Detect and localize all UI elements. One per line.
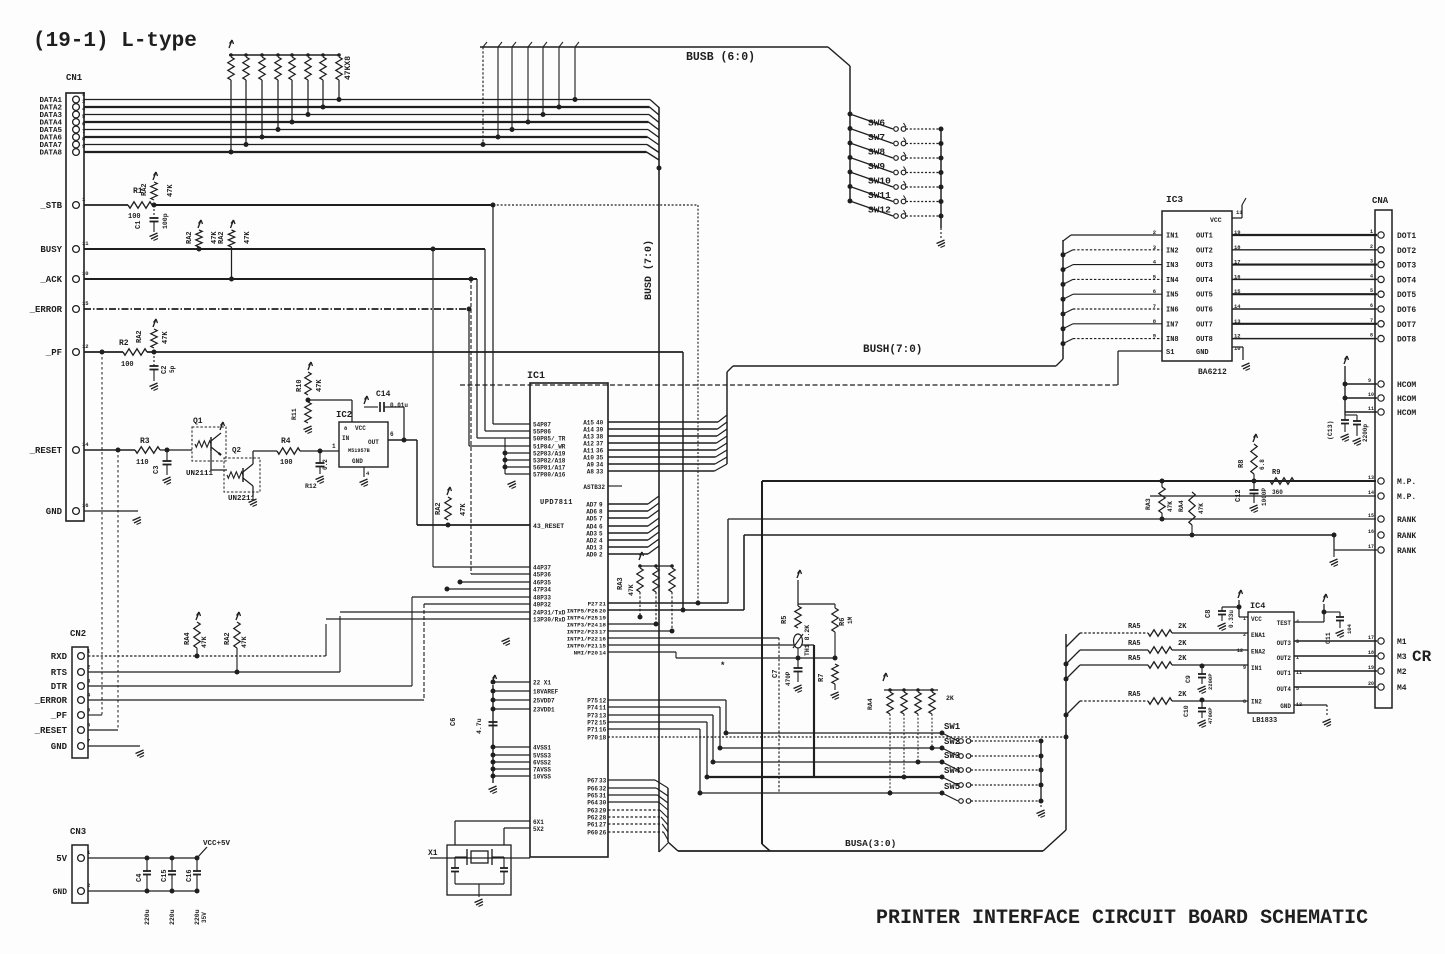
svg-text:OUT4: OUT4: [1277, 686, 1292, 693]
wire M.P. line: [761, 481, 763, 844]
resistor R11 220: [305, 402, 311, 423]
svg-text:5: 5: [599, 531, 603, 538]
ground VSS: [489, 786, 497, 790]
svg-text:360: 360: [1272, 489, 1283, 496]
svg-text:20: 20: [1368, 681, 1374, 687]
svg-text:R5: R5: [781, 616, 789, 624]
svg-text:6: 6: [1370, 303, 1373, 309]
wire Q2 collector to R4: [252, 451, 254, 464]
resistor RA2 47K pull-up on _ACK: [231, 220, 234, 228]
switch SW11: [848, 184, 853, 189]
svg-text:P63: P63: [587, 808, 598, 815]
svg-text:47K: 47K: [167, 184, 175, 197]
svg-text:47K: 47K: [628, 584, 635, 596]
svg-text:220u: 220u: [144, 909, 151, 925]
svg-text:10: 10: [1234, 345, 1241, 352]
svg-text:CR: CR: [1412, 648, 1432, 666]
svg-text:A15: A15: [583, 420, 594, 427]
svg-text:RA5: RA5: [1128, 623, 1141, 631]
wire IC3 VCC: [1232, 217, 1242, 219]
wire VSS pins tie: [493, 746, 530, 748]
svg-text:11: 11: [82, 240, 89, 247]
wire IC4 TEST + capacitor C11: [1294, 621, 1324, 623]
svg-text:4700P: 4700P: [1207, 707, 1214, 724]
svg-text:54P87: 54P87: [533, 422, 551, 429]
svg-text:1: 1: [1370, 229, 1373, 235]
svg-text:RA3: RA3: [617, 577, 625, 590]
svg-text:HCOM: HCOM: [1397, 395, 1416, 404]
svg-text:DOT8: DOT8: [1397, 336, 1416, 345]
svg-text:C2: C2: [161, 366, 169, 374]
svg-text:10: 10: [82, 270, 89, 277]
svg-text:RANK: RANK: [1397, 532, 1416, 541]
svg-text:IN5: IN5: [1166, 292, 1179, 300]
wire INTP1/P22 to SW5: [608, 637, 779, 639]
svg-text:4: 4: [1370, 273, 1373, 279]
svg-text:IC1: IC1: [527, 371, 545, 382]
svg-text:OUT7: OUT7: [1196, 321, 1213, 329]
svg-text:CNA: CNA: [1372, 196, 1389, 206]
svg-text:33: 33: [599, 778, 607, 785]
svg-text:UN2111: UN2111: [186, 470, 214, 478]
capacitor C12 1000P: [1253, 481, 1255, 490]
wire INTP3 INTP2 stubs: [608, 623, 656, 625]
svg-text:57P80/A16: 57P80/A16: [533, 472, 566, 479]
svg-text:30: 30: [599, 800, 607, 807]
svg-text:14: 14: [82, 441, 89, 448]
svg-text:25VDD7: 25VDD7: [533, 698, 555, 705]
svg-text:15: 15: [1368, 513, 1374, 519]
svg-text:TH1 8.2K: TH1 8.2K: [804, 625, 811, 656]
svg-text:47K: 47K: [244, 231, 252, 244]
svg-text:56P81/A17: 56P81/A17: [533, 465, 566, 472]
wires IC4 outputs to CNA M pins: [1294, 640, 1377, 642]
svg-text:IC3: IC3: [1166, 194, 1183, 205]
svg-text:INTP4/P25: INTP4/P25: [567, 615, 599, 622]
bus BUSA (3:0): [678, 850, 1043, 852]
svg-text:32: 32: [599, 786, 607, 793]
wire CN2 _ERROR line: [88, 699, 424, 701]
svg-text:6.8: 6.8: [1259, 459, 1266, 470]
svg-text:2K: 2K: [946, 695, 954, 702]
svg-text:2200p: 2200p: [1362, 424, 1369, 442]
svg-text:2200P: 2200P: [1207, 673, 1214, 690]
svg-text:IN3: IN3: [1166, 262, 1179, 270]
svg-text:A13: A13: [583, 434, 594, 441]
resistor network RA3 47K x3: [639, 552, 642, 560]
svg-text:P64: P64: [587, 800, 598, 807]
bus BUSB (6:0) top bus: [480, 46, 828, 48]
ground SW1-SW5: [1037, 810, 1045, 814]
svg-text:38: 38: [596, 434, 604, 441]
svg-text:22 X1: 22 X1: [533, 680, 551, 687]
wire P75-P70 port lines: [608, 699, 726, 701]
svg-text:100: 100: [121, 361, 134, 369]
svg-text:9: 9: [599, 502, 603, 509]
svg-text:LB1833: LB1833: [1252, 717, 1277, 725]
svg-text:15: 15: [599, 720, 607, 727]
svg-text:RA2: RA2: [136, 330, 144, 343]
svg-text:26: 26: [599, 830, 607, 837]
wire IC4 VCC + capacitor C8: [1238, 590, 1241, 598]
resistor R7 2M: [832, 664, 838, 684]
svg-text:8: 8: [599, 509, 603, 516]
svg-text:18: 18: [599, 735, 607, 742]
svg-text:5X2: 5X2: [533, 826, 544, 833]
svg-text:P73: P73: [587, 713, 598, 720]
svg-text:12: 12: [1237, 648, 1243, 654]
wires OUT1-OUT8 to DOT1-DOT8: [1232, 234, 1377, 236]
svg-text:SW5: SW5: [944, 782, 960, 792]
svg-text:1M: 1M: [847, 616, 854, 624]
svg-text:P72: P72: [587, 720, 598, 727]
svg-text:_PF: _PF: [50, 711, 67, 721]
wire TxD riser: [339, 616, 341, 672]
resistor network 47Kx8 pull-ups: [229, 40, 232, 48]
resistor R3 110: [135, 447, 160, 453]
svg-text:6: 6: [87, 722, 90, 729]
svg-text:*: *: [720, 661, 725, 671]
wire CN2 _PF stub: [88, 714, 102, 716]
resistor RA2 47K pull-up on RTS: [236, 612, 239, 620]
svg-text:IN8: IN8: [1166, 336, 1179, 344]
svg-text:CN1: CN1: [66, 73, 83, 83]
svg-text:M51957B: M51957B: [348, 448, 370, 454]
svg-text:SW12: SW12: [868, 205, 891, 216]
wire IC4 GND: [1294, 704, 1327, 706]
svg-text:DOT2: DOT2: [1397, 247, 1416, 256]
svg-text:39: 39: [596, 427, 604, 434]
svg-text:VCC: VCC: [1210, 217, 1222, 224]
svg-text:1000P: 1000P: [1261, 488, 1268, 506]
svg-text:INTP0/P21: INTP0/P21: [567, 643, 599, 650]
wire DTR riser: [411, 597, 413, 686]
wire IC3 GND: [1232, 346, 1243, 348]
svg-text:C16: C16: [186, 869, 194, 882]
svg-text:M2: M2: [1397, 668, 1407, 677]
svg-text:2: 2: [87, 882, 90, 889]
resistor RA2 47K pull-up on RESET: [447, 487, 450, 495]
capacitor C1: [153, 205, 155, 218]
svg-text:35V: 35V: [201, 912, 208, 923]
ground Q2 emitter: [252, 486, 254, 497]
wire RxD riser: [325, 624, 327, 656]
wire BUSB tap 1: [574, 47, 576, 100]
ground crystal: [475, 899, 483, 903]
capacitor C6 4.7u: [489, 721, 498, 723]
wire RTS line: [88, 671, 340, 673]
svg-text:0.33u: 0.33u: [1228, 610, 1235, 628]
svg-text:17: 17: [1368, 635, 1374, 641]
svg-text:RTS: RTS: [51, 668, 68, 678]
resistor R5 8.2K: [797, 570, 800, 578]
svg-text:15: 15: [82, 300, 89, 307]
svg-text:9: 9: [1368, 378, 1371, 384]
svg-text:2: 2: [87, 664, 90, 671]
svg-text:DOT1: DOT1: [1397, 232, 1416, 241]
svg-text:470P: 470P: [785, 671, 792, 686]
wire INTP0/P21 to SW4: [608, 644, 814, 646]
svg-text:OUT2: OUT2: [1277, 655, 1292, 662]
svg-text:33: 33: [596, 469, 604, 476]
wire BUSY to IC1 P86: [484, 249, 486, 431]
svg-text:12: 12: [599, 698, 607, 705]
svg-text:AD1: AD1: [586, 545, 597, 552]
svg-text:BUSY: BUSY: [40, 245, 62, 255]
wire P67-P60 to BUSA bus: [608, 779, 655, 781]
svg-text:Q1: Q1: [193, 417, 203, 426]
svg-text:104: 104: [1346, 623, 1353, 634]
svg-text:47KX8: 47KX8: [344, 56, 353, 80]
svg-text:2: 2: [1370, 244, 1373, 250]
svg-text:AD3: AD3: [586, 531, 597, 538]
wire _STB line: [84, 204, 128, 206]
ground C1: [150, 233, 158, 237]
svg-text:_STB: _STB: [39, 201, 62, 211]
ground P8x tie: [508, 481, 516, 485]
svg-text:19: 19: [599, 615, 606, 622]
svg-text:14: 14: [599, 650, 606, 657]
svg-text:16: 16: [599, 636, 606, 643]
svg-text:2K: 2K: [1178, 623, 1187, 631]
wire S1 select line: [460, 384, 1118, 386]
svg-text:OUT5: OUT5: [1196, 292, 1213, 300]
svg-text:SW7: SW7: [868, 132, 885, 143]
svg-text:OUT: OUT: [368, 439, 379, 446]
svg-text:SW9: SW9: [868, 161, 885, 172]
wire RANK3 ground: [1334, 549, 1377, 551]
svg-text:4VSS1: 4VSS1: [533, 745, 551, 752]
svg-text:52P83/A19: 52P83/A19: [533, 451, 566, 458]
ground C2: [150, 383, 158, 387]
svg-text:8: 8: [1370, 333, 1373, 339]
resistor R4 100: [277, 448, 300, 454]
svg-text:4: 4: [599, 538, 603, 545]
svg-text:ASTB32: ASTB32: [583, 484, 605, 491]
svg-text:3: 3: [1296, 639, 1299, 645]
svg-text:RA2: RA2: [435, 502, 443, 515]
svg-text:10: 10: [1368, 392, 1374, 398]
wire _ERROR to IC1 P84: [468, 309, 470, 446]
svg-text:OUT4: OUT4: [1196, 277, 1213, 285]
wire AD7-AD0 to BUSD: [608, 503, 648, 505]
svg-text:23VDD1: 23VDD1: [533, 707, 555, 714]
svg-text:49P32: 49P32: [533, 602, 551, 609]
svg-text:CN3: CN3: [70, 827, 86, 837]
svg-text:2: 2: [599, 552, 603, 559]
svg-text:P70: P70: [587, 735, 598, 742]
svg-text:5VSS3: 5VSS3: [533, 753, 551, 760]
svg-text:BUSA(3:0): BUSA(3:0): [845, 838, 896, 849]
wire NMI/P20 to thermistor divider: [608, 651, 676, 653]
svg-text:16: 16: [599, 727, 607, 734]
svg-text:28: 28: [599, 815, 607, 822]
svg-text:8: 8: [1243, 699, 1246, 705]
svg-text:31: 31: [599, 793, 607, 800]
svg-text:C15: C15: [161, 869, 169, 882]
svg-text:11: 11: [1368, 406, 1374, 412]
svg-text:18VAREF: 18VAREF: [533, 689, 559, 696]
svg-text:45P36: 45P36: [533, 572, 551, 579]
svg-text:2: 2: [82, 91, 85, 98]
svg-text:P75: P75: [587, 698, 598, 705]
svg-text:27: 27: [599, 822, 607, 829]
wire _RESET to CN2 _RESET: [117, 450, 119, 730]
svg-text:R6: R6: [839, 618, 847, 626]
svg-text:0.01u: 0.01u: [390, 402, 408, 409]
capacitor C4: [145, 856, 150, 861]
svg-text:40: 40: [596, 420, 604, 427]
svg-text:OUT2: OUT2: [1196, 247, 1213, 255]
svg-text:R3: R3: [140, 437, 150, 446]
svg-text:S1: S1: [1166, 349, 1174, 357]
svg-text:BUSD (7:0): BUSD (7:0): [643, 240, 655, 300]
svg-text:Q2: Q2: [232, 447, 242, 455]
svg-text:100p: 100p: [162, 213, 169, 229]
wire BUSB tap 3: [542, 47, 544, 115]
wire _ACK line: [84, 278, 477, 280]
svg-text:RANK: RANK: [1397, 547, 1416, 556]
svg-text:SW3: SW3: [944, 751, 960, 761]
svg-text:M3: M3: [1397, 653, 1407, 662]
svg-text:R12: R12: [305, 483, 317, 490]
bus BUSD (7:0) vertical: [658, 107, 660, 852]
svg-text:14: 14: [1368, 490, 1374, 496]
svg-text:RXD: RXD: [51, 652, 68, 662]
svg-text:IN7: IN7: [1166, 321, 1179, 329]
resistor RA2 47K pull-up on _STB: [153, 172, 156, 180]
wire CN3 GND rail: [88, 890, 197, 892]
resistor R9 on M.P. line: [1270, 478, 1294, 484]
wire VCC to IC1 VDD pins: [492, 675, 495, 683]
svg-text:7: 7: [1370, 318, 1373, 324]
svg-text:35: 35: [596, 455, 604, 462]
svg-text:6: 6: [599, 524, 603, 531]
svg-text:M1: M1: [1397, 638, 1407, 647]
svg-text:7: 7: [87, 738, 90, 745]
wire SW common to ground: [940, 129, 942, 228]
resistor RA2 47K pull-up on BUSY: [198, 220, 201, 228]
ground R11: [304, 426, 312, 430]
svg-text:_PF: _PF: [45, 348, 62, 358]
svg-text:29: 29: [599, 808, 607, 815]
svg-text:2K: 2K: [1178, 691, 1187, 699]
capacitor C2: [153, 352, 155, 366]
svg-text:P74: P74: [587, 705, 598, 712]
svg-text:R11: R11: [291, 408, 298, 420]
ground P3x: [502, 638, 510, 642]
svg-text:OUT3: OUT3: [1277, 640, 1292, 647]
svg-text:RA5: RA5: [1128, 691, 1141, 699]
svg-text:PRINTER INTERFACE CIRCUIT BOAR: PRINTER INTERFACE CIRCUIT BOARD SCHEMATI…: [876, 907, 1368, 930]
svg-text:R4: R4: [281, 437, 291, 446]
resistor network RA5 2K x4 inputs: [1066, 633, 1080, 647]
resistor R8: [1253, 434, 1256, 442]
svg-text:IN1: IN1: [1166, 233, 1179, 241]
svg-text:RA3: RA3: [1145, 498, 1152, 510]
svg-text:GND: GND: [46, 507, 63, 517]
svg-text:RA4: RA4: [184, 632, 192, 645]
svg-text:HCOM: HCOM: [1397, 409, 1416, 418]
svg-text:53P82/A18: 53P82/A18: [533, 458, 566, 465]
svg-text:(C13): (C13): [1327, 420, 1334, 440]
svg-text:SW1: SW1: [944, 722, 961, 732]
svg-text:AD5: AD5: [586, 516, 597, 523]
capacitor C13: [1345, 414, 1357, 416]
svg-text:SW11: SW11: [868, 190, 891, 201]
capacitor C5: [319, 451, 321, 463]
svg-text:R9: R9: [1272, 469, 1280, 477]
svg-text:NMI/P20: NMI/P20: [574, 650, 599, 657]
wire IC2 OUT to IC1 RESET: [388, 439, 417, 441]
svg-text:100: 100: [280, 459, 293, 467]
svg-text:INTP3/P24: INTP3/P24: [567, 622, 599, 629]
svg-text:3: 3: [1370, 259, 1373, 265]
svg-text:RA2: RA2: [224, 632, 232, 645]
svg-text:IN1: IN1: [1251, 665, 1262, 672]
svg-text:(19-1) L-type: (19-1) L-type: [33, 30, 197, 53]
svg-text:AD0: AD0: [586, 552, 597, 559]
svg-text:R8: R8: [1238, 460, 1246, 468]
svg-text:C3: C3: [153, 466, 161, 474]
svg-text:18: 18: [599, 622, 606, 629]
thermistor TH1: [794, 634, 803, 648]
svg-text:INTP5/P26: INTP5/P26: [567, 608, 599, 615]
resistor RA3 47K on M.P.: [1159, 487, 1165, 513]
svg-text:AD4: AD4: [586, 524, 597, 531]
svg-text:SW2: SW2: [944, 737, 960, 747]
svg-text:A9: A9: [587, 462, 595, 469]
svg-text:6VSS2: 6VSS2: [533, 760, 551, 767]
svg-text:M.P.: M.P.: [1397, 478, 1416, 487]
svg-text:_ERROR: _ERROR: [34, 696, 68, 706]
vcc VCC+5V: [197, 847, 207, 858]
svg-text:47P34: 47P34: [533, 587, 551, 594]
svg-text:GND: GND: [51, 742, 68, 752]
wire RANK line 1: [727, 519, 729, 603]
svg-text:6X1: 6X1: [533, 819, 544, 826]
wire CN2 ERROR riser: [423, 604, 425, 700]
svg-text:AD6: AD6: [586, 509, 597, 516]
svg-text:2K: 2K: [1178, 640, 1187, 648]
svg-text:7AVSS: 7AVSS: [533, 767, 551, 774]
svg-text:A8: A8: [587, 469, 595, 476]
svg-text:50P85/_TR: 50P85/_TR: [533, 436, 566, 443]
wire CN2 GND: [88, 745, 140, 747]
ground SW6-SW12: [937, 240, 945, 244]
svg-text:13: 13: [599, 713, 607, 720]
svg-text:OUT1: OUT1: [1196, 233, 1213, 241]
wire RANK line 2: [743, 535, 745, 610]
svg-text:220u: 220u: [169, 909, 176, 925]
svg-text:TEST: TEST: [1277, 620, 1292, 627]
wire A15-A8 address lines to BUSH bus: [608, 421, 718, 423]
switch block SW6-SW12: [849, 66, 851, 203]
svg-text:VCC: VCC: [1251, 616, 1262, 623]
wire P35 P34 stubs: [460, 581, 530, 583]
svg-text:AD2: AD2: [586, 538, 597, 545]
svg-text:5p: 5p: [169, 365, 176, 373]
wire M.P. 2 line: [1150, 495, 1376, 497]
svg-text:C9: C9: [1185, 675, 1192, 683]
svg-text:R7: R7: [818, 674, 826, 682]
svg-text:5: 5: [1370, 288, 1373, 294]
svg-text:C6: C6: [450, 718, 458, 726]
svg-text:_RESET: _RESET: [29, 446, 63, 456]
svg-text:C1: C1: [135, 221, 143, 229]
svg-text:P65: P65: [587, 793, 598, 800]
svg-text:SW4: SW4: [944, 766, 961, 776]
